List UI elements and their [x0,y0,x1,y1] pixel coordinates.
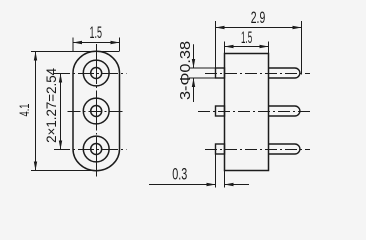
hole 1 inner circle [91,68,102,79]
dimension 1.5 (side view) extension lines [225,42,269,54]
hole 2 outer circle [83,98,109,124]
pin 2 centerline [198,111,310,113]
pin 3 contact (right, rounded) [269,144,300,154]
dimension 3-dia0.38 extension lines [189,68,216,78]
hole 1 outer circle [83,60,109,86]
connector body outline (side view) [225,54,269,171]
svg-text:3-Φ0.38: 3-Φ0.38 [178,41,194,100]
vertical centerline through holes [96,44,98,177]
pin 2 solder stub (left) [216,106,225,116]
dimension 1.5 (side view) dimension line [225,46,269,48]
horizontal centerline hole 3 [54,149,127,151]
dimension 1.5 (front view) dimension line [73,42,120,44]
dimension 1.5 (side view) arrowheads [225,45,269,48]
hole 2 inner circle [91,106,102,117]
svg-text:4.1: 4.1 [16,103,32,116]
dimension 4.1 dimension line [35,52,37,171]
dimension 3-dia0.38 arrowheads [192,59,195,87]
hole 3 inner circle [91,144,102,155]
dimension 0.3 dimension line with outside arrows [149,184,249,186]
dimension 2.9 extension lines [216,21,302,75]
dimension 4.1 extension lines [31,52,120,171]
horizontal centerline hole 1 [54,73,127,75]
dimension 2.9 dimension line [216,27,302,29]
pin 1 centerline [205,73,310,75]
horizontal centerline hole 2 [68,111,126,113]
svg-text:1.5: 1.5 [90,23,103,42]
dimension 4.1 arrowheads [34,52,37,171]
connector body outline (front view stadium) [73,51,120,170]
dimension 0.3 arrowheads [207,183,234,186]
dimension 1.5 (front view) arrowheads [73,41,120,44]
svg-text:0.3: 0.3 [172,165,187,184]
svg-text:2.9: 2.9 [251,8,266,27]
pin 2 contact (right, rounded) [269,106,300,116]
hole 3 outer circle [83,136,109,162]
pin 1 solder stub (left) [216,68,225,78]
pin 3 solder stub (left) [216,144,225,154]
svg-text:1.5: 1.5 [241,28,252,47]
dimension 2x1.27=2.54 dimension line [60,74,62,150]
dimension 2x1.27=2.54 arrowheads [59,74,62,150]
dimension 2.9 arrowheads [216,26,302,29]
pin 3 centerline [205,149,310,151]
dimension 1.5 (front view width) extension lines [73,38,120,52]
pin 1 contact (right, rounded) [269,68,300,78]
svg-text:2×1.27=2.54: 2×1.27=2.54 [43,68,59,143]
dimension 3-dia0.38 dimension line with outside arrows [193,44,195,102]
dimension 0.3 extension lines [216,154,225,188]
